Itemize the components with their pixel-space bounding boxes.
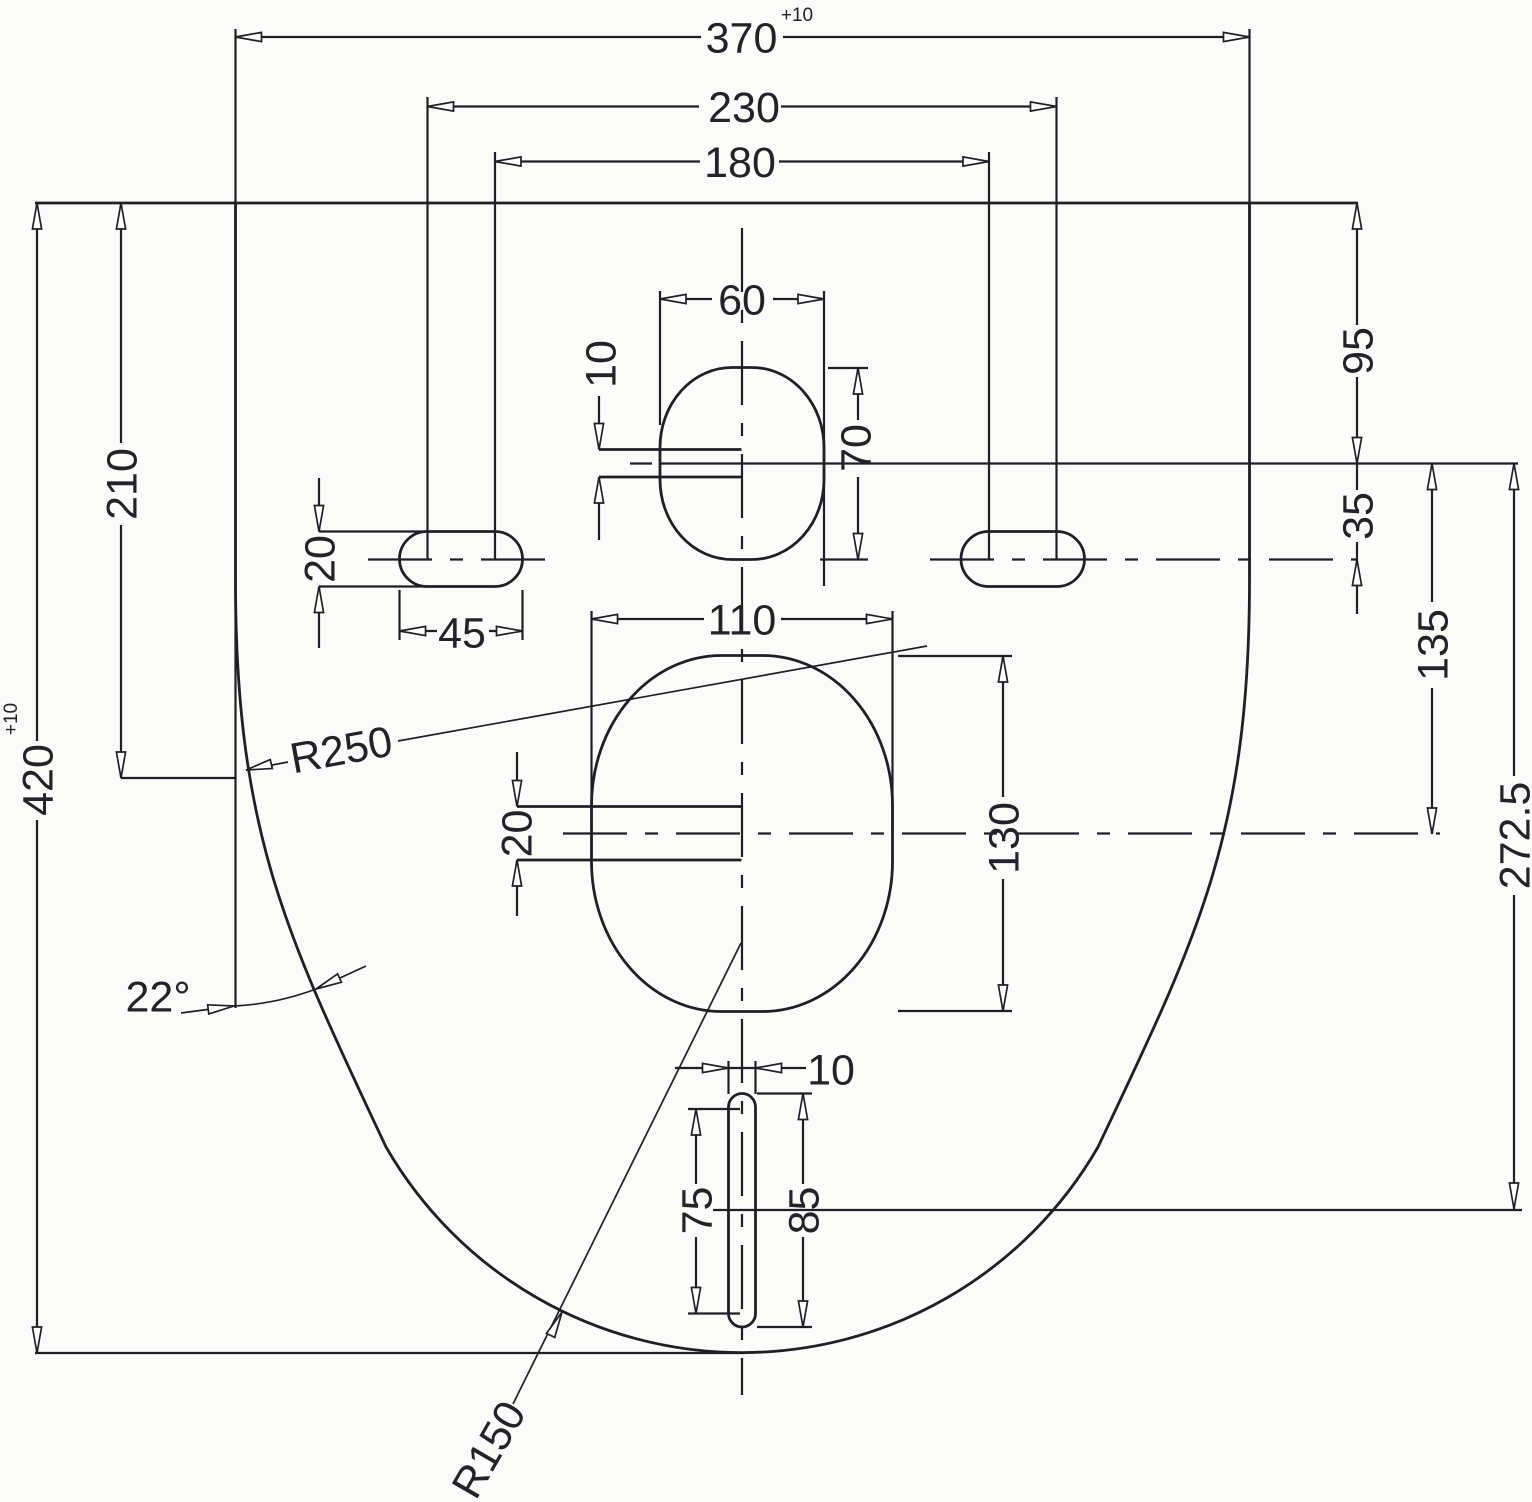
svg-text:110: 110	[708, 597, 777, 645]
svg-text:230: 230	[708, 84, 780, 132]
svg-text:10: 10	[578, 340, 626, 388]
svg-text:135: 135	[1410, 609, 1458, 681]
svg-text:22°: 22°	[125, 974, 190, 1022]
svg-text:35: 35	[1335, 492, 1383, 540]
svg-text:272.5: 272.5	[1492, 782, 1532, 890]
svg-text:45: 45	[438, 610, 486, 658]
svg-text:370: 370	[706, 15, 778, 63]
svg-text:60: 60	[718, 277, 766, 325]
svg-text:180: 180	[704, 139, 776, 187]
svg-text:+10: +10	[1, 703, 22, 735]
svg-text:20: 20	[297, 535, 345, 583]
svg-text:10: 10	[807, 1047, 855, 1095]
svg-text:95: 95	[1335, 327, 1383, 375]
svg-text:75: 75	[674, 1187, 722, 1235]
svg-text:130: 130	[981, 802, 1029, 874]
svg-text:210: 210	[99, 448, 147, 520]
svg-text:70: 70	[833, 424, 881, 472]
svg-text:20: 20	[494, 810, 542, 858]
svg-text:85: 85	[781, 1187, 829, 1235]
svg-text:420: 420	[15, 744, 63, 816]
svg-text:+10: +10	[781, 5, 813, 26]
